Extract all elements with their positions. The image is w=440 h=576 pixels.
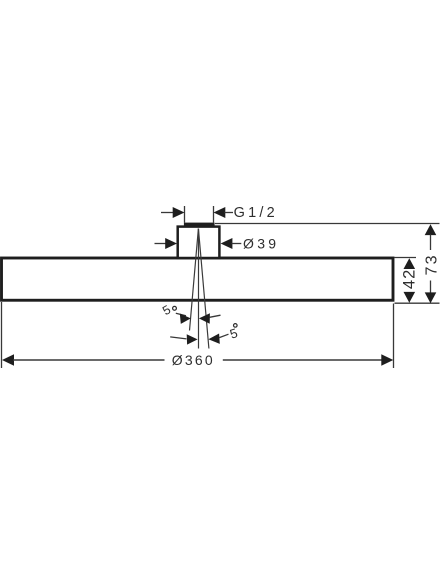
Ø39 right arrow — [221, 238, 233, 249]
Ø39 dimension left tail — [155, 243, 168, 245]
Ø360 right arrow (outward) — [381, 354, 393, 366]
42 dimension bottom arrow — [404, 292, 416, 303]
lower 5 deg left-pointing arrow (at right spray line) — [208, 334, 219, 344]
Ø360 dimension left segment — [13, 359, 165, 361]
upper 5 deg right-pointing arrow (at left spray line) — [180, 314, 191, 324]
lower 5 deg leader to label — [219, 334, 228, 337]
svg-text:73: 73 — [424, 253, 440, 275]
disc-bottom extension line — [395, 302, 440, 304]
svg-text:Ø39: Ø39 — [243, 235, 279, 251]
spray center line — [198, 229, 200, 349]
upper 5 deg leader — [176, 313, 186, 316]
disc-top extension line (42 dim) — [395, 257, 417, 259]
73 dimension line lower stub — [430, 281, 432, 294]
Ø360 left extension line — [1, 302, 3, 368]
G1/2 left arrow — [173, 207, 185, 218]
73 dimension top arrow — [425, 224, 437, 235]
connector nut body — [178, 227, 220, 258]
upper 5 deg label degree ring — [173, 306, 177, 310]
Ø39 left arrow — [165, 238, 177, 249]
svg-text:5: 5 — [160, 303, 173, 319]
73 dimension bottom arrow — [425, 292, 437, 303]
nut-top extension line (73 dim) — [215, 223, 440, 225]
svg-text:G1/2: G1/2 — [234, 205, 278, 221]
lower 5 deg label degree ring — [234, 324, 238, 328]
svg-text:42: 42 — [400, 269, 418, 289]
lower 5 deg right-pointing arrow (at center line) — [187, 334, 198, 344]
Ø39 dimension right tail — [232, 243, 242, 245]
upper 5 deg arrow tail — [210, 315, 221, 317]
disc body (shower plate side view) — [2, 258, 394, 300]
spray left line — [190, 229, 199, 331]
upper 5 deg left-pointing arrow (at center line) — [199, 313, 210, 323]
G1/2 left extension line — [184, 206, 186, 223]
connector cap bar — [184, 223, 215, 228]
G1/2 dimension right tail — [225, 212, 234, 214]
spray right line — [198, 229, 209, 349]
G1/2 right arrow — [214, 207, 226, 218]
lower 5 deg tail left — [170, 337, 186, 339]
svg-text:Ø360: Ø360 — [172, 352, 215, 368]
G1/2 right extension line — [213, 206, 215, 223]
Ø360 right extension line — [393, 304, 395, 369]
Ø360 left arrow (outward) — [2, 354, 14, 366]
G1/2 dimension left tail — [161, 212, 175, 214]
42 dimension top arrow — [404, 258, 416, 269]
Ø360 dimension right segment — [223, 359, 383, 361]
svg-text:5: 5 — [228, 325, 240, 342]
73 dimension line upper stub — [430, 235, 432, 251]
